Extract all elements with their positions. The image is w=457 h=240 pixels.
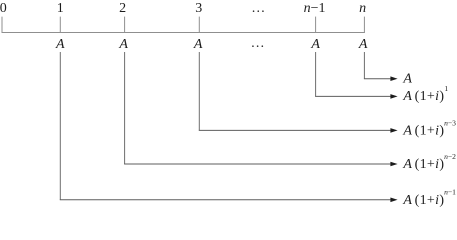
drop line from 1	[59, 52, 61, 200]
tick 2	[124, 17, 126, 33]
arrow line row 5	[60, 199, 391, 201]
tick n	[363, 17, 365, 33]
arrow line row 2	[315, 95, 391, 97]
axis line	[2, 32, 365, 34]
svg-text:0: 0	[0, 1, 7, 16]
drop line from 2	[124, 52, 126, 164]
svg-text:2: 2	[119, 1, 126, 16]
svg-text:A: A	[402, 72, 412, 87]
tick 1	[59, 17, 61, 33]
svg-text:n: n	[359, 1, 366, 16]
svg-text:A: A	[55, 37, 65, 52]
svg-text:…: …	[251, 36, 265, 51]
drop line from n	[363, 52, 365, 79]
svg-text:n−1: n−1	[304, 1, 326, 16]
arrowhead row 5	[390, 198, 397, 203]
arrowhead row 2	[390, 94, 397, 99]
svg-text:A(1+i)n−2: A(1+i)n−2	[402, 152, 456, 172]
svg-text:A(1+i)n−3: A(1+i)n−3	[402, 118, 456, 138]
arrow line row 3	[199, 129, 391, 131]
svg-text:A: A	[358, 37, 368, 52]
tick 0	[1, 17, 3, 33]
drop line from 3	[198, 52, 200, 130]
svg-text:A(1+i)1: A(1+i)1	[402, 84, 448, 104]
arrowhead row 4	[390, 162, 397, 167]
arrow line row 1	[364, 78, 391, 80]
drop line from n-1	[315, 52, 317, 96]
tick 3	[198, 17, 200, 33]
arrow line row 4	[124, 163, 391, 165]
svg-text:A: A	[310, 37, 320, 52]
svg-text:A: A	[193, 37, 203, 52]
svg-text:…: …	[251, 1, 265, 16]
tick n-1	[315, 17, 317, 33]
svg-text:A(1+i)n−1: A(1+i)n−1	[402, 188, 456, 208]
arrowhead row 3	[390, 128, 397, 133]
svg-text:1: 1	[57, 1, 64, 16]
svg-text:A: A	[118, 37, 128, 52]
arrowhead row 1	[390, 76, 397, 81]
svg-text:3: 3	[195, 1, 202, 16]
